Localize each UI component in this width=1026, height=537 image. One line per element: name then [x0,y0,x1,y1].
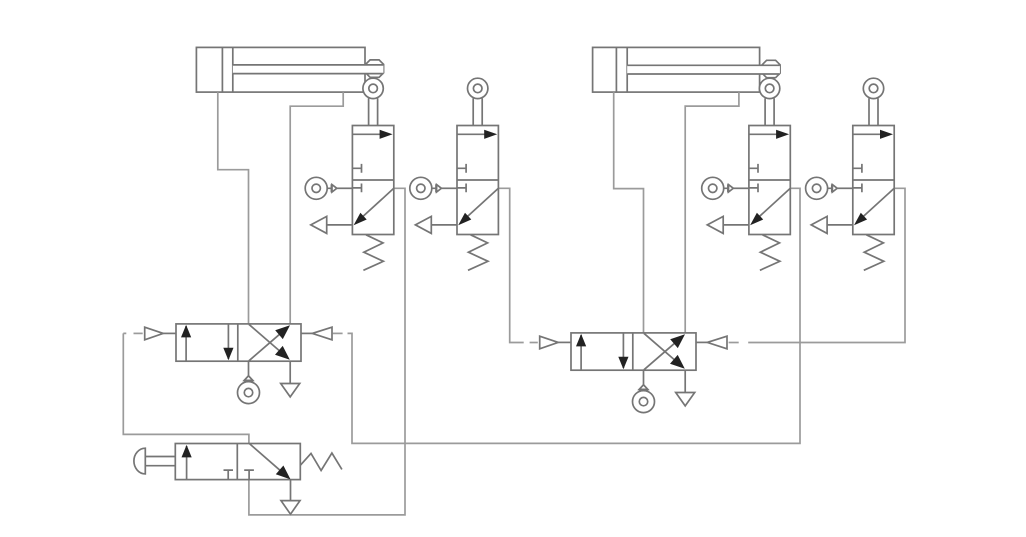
limit valve S1 (3/2 roller, pressed) [305,78,394,270]
push-button valve blocked port, rest box [244,470,254,480]
push-button actuator [134,448,145,474]
impulse valve V1 (4/2) [145,324,332,404]
wire limit valve S2 output to valve V2 left pilot [498,188,523,342]
limit valve S3 (3/2 roller, pressed) [702,78,791,270]
wire limit valve S1 output to push-button valve supply [249,188,405,515]
push-button valve flow path 2-3, rest box [249,444,287,477]
wire cylinder1 cap-end port to valve V1 port A [218,92,249,324]
wire limit valve S3 output to valve V1 right pilot [348,188,801,443]
push-button valve blocked port, actuated box [224,470,234,480]
wire limit valve S4 output to valve V2 right pilot [748,188,905,342]
impulse valve V2 (4/2) [540,333,727,413]
wire cylinder2 rod-end port to valve V2 port B [685,92,739,333]
cylinder 2A cam plate [762,60,780,77]
dashed pilot segment valve V1 right [333,332,343,334]
push-button valve flow arrow, actuated box [186,446,188,480]
push-button valve return spring [300,453,342,471]
wire push-button valve output to valve V1 left pilot [123,333,249,443]
cylinder 1A body [196,47,365,92]
limit valve S2 (3/2 roller) [410,78,499,270]
dashed pilot segment valve V2 left [530,342,538,344]
cylinder 2A body [593,47,760,92]
wire cylinder1 rod-end port to valve V1 port B [290,92,343,324]
dashed pilot segment valve V1 left [134,332,143,334]
cylinder 1A piston [222,47,232,92]
push-button valve body [175,444,300,480]
cylinder 2A piston rod [627,65,780,74]
wire cylinder2 cap-end port to valve V2 port A [614,92,644,333]
cylinder 1A piston rod [233,65,384,74]
push-button valve exhaust [290,480,292,501]
cylinder 1A cam plate [366,60,384,77]
dashed pilot segment valve V2 right [729,342,739,344]
limit valve S4 (3/2 roller) [806,78,895,270]
cylinder 2A piston [616,47,627,92]
